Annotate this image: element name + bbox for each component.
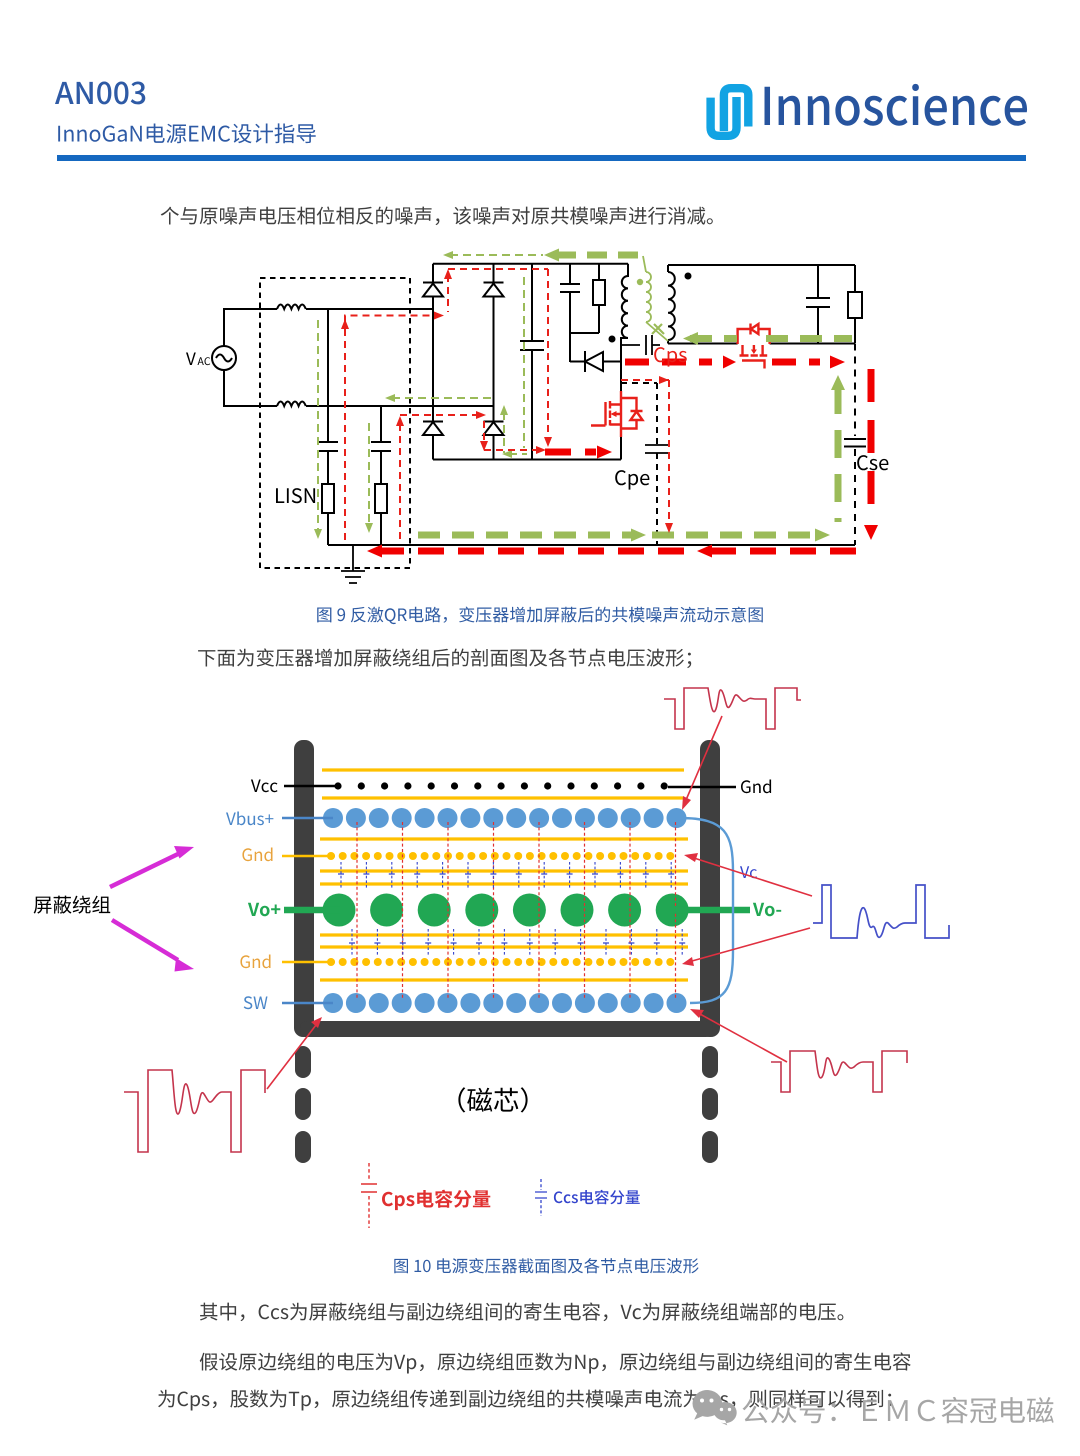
label VAC <box>186 353 196 366</box>
green thick secondary return path <box>690 335 852 342</box>
Innoscience logo icon <box>711 88 749 136</box>
waveform bottom right (SW node, red) <box>771 1051 907 1092</box>
red thick bottom path <box>378 548 868 555</box>
Ccs tick plates <box>338 874 355 943</box>
label Vo+ <box>248 903 280 917</box>
tape line 8 <box>320 978 688 981</box>
green arrowhead down (LISN2) <box>365 523 373 533</box>
paragraph 4 line 2 <box>158 1390 891 1411</box>
label Vcc <box>251 780 278 793</box>
red thick arrowhead mid (Cps path) <box>723 356 736 369</box>
lead Vo+ <box>284 907 340 914</box>
lead Gnd right <box>668 786 736 788</box>
secondary top rail <box>668 264 855 266</box>
core left leg dashes <box>295 1046 311 1078</box>
annotation line waveform to Vbus+ <box>267 716 812 1089</box>
diode D4 <box>484 422 504 436</box>
snubber resistor <box>598 263 600 333</box>
figure 10 caption <box>394 1258 698 1273</box>
green thick vertical right <box>835 386 842 522</box>
green thick arrowhead left (top shield path) <box>544 249 559 262</box>
magenta arrow to upper shield <box>110 846 194 887</box>
snubber diode <box>570 351 621 372</box>
resistor LISN 2 <box>375 484 387 513</box>
green noise path lower diode vertical <box>504 412 527 454</box>
label Vo- <box>753 903 781 917</box>
green noise path bridge horizontal <box>392 397 494 399</box>
red arrowhead down (x548) <box>544 437 552 447</box>
capacitor LISN 2 <box>371 406 391 484</box>
winding row SW (blue) <box>323 993 687 1013</box>
secondary bottom rail <box>668 343 855 345</box>
green arrowhead left (lower diode) <box>502 450 512 458</box>
Ccs dashed capacitance ticks <box>341 862 352 956</box>
paragraph 2 <box>198 648 691 668</box>
output capacitor <box>806 265 830 343</box>
red arrowhead right (x478) <box>476 411 486 419</box>
label Vc <box>740 866 757 878</box>
red arrowhead up (LISN) <box>341 319 349 329</box>
lead SW <box>282 1002 333 1005</box>
primary dot <box>609 336 616 343</box>
label Cpe <box>615 470 649 490</box>
paragraph 4 line 1 <box>200 1353 911 1374</box>
magenta arrow to lower shield <box>112 920 194 972</box>
red arrowhead right (lower rail) <box>536 446 546 454</box>
capacitor LISN 1 <box>318 309 338 484</box>
paragraph 3 <box>200 1303 844 1322</box>
waveform bottom left (SW node, red) <box>124 1070 265 1152</box>
tape line 7 <box>320 945 688 948</box>
transformer primary winding <box>621 264 628 391</box>
red thick path Cps to Cse <box>625 359 820 366</box>
lead Vcc <box>284 785 338 787</box>
inductor LISN bottom <box>277 402 306 407</box>
header subtitle <box>58 123 316 143</box>
red thick arrowhead left (bottom 1) <box>367 545 382 558</box>
resistor LISN 1 <box>322 484 334 513</box>
capacitor Cpe dashed branch <box>621 383 657 545</box>
label Vbus+ <box>226 812 273 826</box>
red thick path primary bottom <box>545 449 596 456</box>
AC source VAC <box>212 346 236 370</box>
red noise path lower diode vertical <box>484 421 538 450</box>
winding row Vcc (black dots) <box>334 782 667 789</box>
lead Gnd upper <box>282 855 335 858</box>
red arrowhead right (Cpe loop) <box>659 376 669 384</box>
tape line 6 <box>320 933 688 936</box>
load resistor <box>854 265 856 343</box>
LISN dashed box <box>260 278 410 568</box>
diode D1 <box>423 283 443 297</box>
transformer shield winding <box>643 256 668 341</box>
green arrowhead down (LISN1) <box>314 529 322 539</box>
red arrowhead down (Cpe bottom) <box>665 523 673 533</box>
red arrowhead up (x400) <box>396 416 404 426</box>
winding row Vbus+ (blue) <box>323 808 687 828</box>
Ccs legend capacitor symbol <box>535 1179 547 1216</box>
tape line 4 <box>320 869 688 872</box>
label Cse <box>857 455 888 470</box>
paragraph 1 <box>161 207 713 226</box>
green arrowhead up (lower diode) <box>500 405 508 415</box>
green thick bottom path <box>418 532 818 539</box>
core right leg dashes <box>702 1046 718 1078</box>
red thick arrowhead left (bottom 2) <box>697 545 712 558</box>
core left bar <box>294 740 314 1037</box>
GaN transistor Q2 (sync rectifier, red) <box>738 324 770 369</box>
label Gnd lower <box>240 955 270 969</box>
tape line 2 <box>322 796 684 799</box>
green noise path top horizontal <box>450 254 543 256</box>
wire Q1 source to rail <box>620 437 622 460</box>
secondary dot <box>685 273 692 280</box>
diode D3 <box>423 422 443 436</box>
green noise path LISN vertical 1 <box>317 320 319 530</box>
winding row Vo+ (green) <box>323 894 689 927</box>
label Gnd upper <box>242 848 272 862</box>
green arrowhead left (top) <box>443 251 453 259</box>
red noise path Cpe loop <box>621 380 669 525</box>
green thick arrowhead right (bottom 2) <box>815 529 830 542</box>
wire VAC to LISN top <box>224 309 433 346</box>
red thick arrowhead down (right vertical) <box>864 525 878 540</box>
transformer secondary winding <box>668 265 675 344</box>
label LISN <box>276 488 315 503</box>
red noise path bridge top <box>448 269 548 312</box>
red noise path tall vertical x548 <box>547 269 549 440</box>
label Ccs capacitance component <box>554 1190 640 1205</box>
diode D2 <box>484 283 504 297</box>
red noise path vertical x400 <box>400 415 479 544</box>
snubber node wire <box>570 333 599 362</box>
lead Vbus+ <box>282 817 333 820</box>
ground symbol <box>341 545 365 583</box>
GaN transistor Q1 (primary switch, red) <box>591 391 643 437</box>
green thick arrowhead left (secondary) <box>683 332 698 345</box>
bulk capacitor <box>520 263 544 459</box>
core bottom bar <box>300 1021 713 1037</box>
shield winding row Gnd upper (yellow dots) <box>327 852 674 860</box>
bottom ground rail <box>328 544 855 546</box>
label Gnd right <box>741 780 771 794</box>
red arrowhead right (x433) <box>434 312 444 320</box>
figure 9 caption <box>317 607 763 625</box>
lead Gnd lower <box>282 961 335 964</box>
label magnetic core <box>458 1087 527 1112</box>
capacitor Cps <box>621 335 660 355</box>
lead Vo- <box>672 907 750 914</box>
red thick arrowhead right (primary bottom) <box>597 446 612 459</box>
header title AN003 <box>55 82 145 105</box>
tape line 5 <box>320 882 688 885</box>
green thick arrowhead up (right vertical) <box>831 375 845 390</box>
Cps legend capacitor symbol <box>361 1163 377 1228</box>
blue connection curve Vbus+ to SW <box>680 818 733 1003</box>
green thick arrowhead right (bottom 1) <box>631 529 646 542</box>
red arrowhead up (bridge top) <box>444 269 452 279</box>
green noise path LISN vertical 2 <box>368 423 370 524</box>
waveform right (Vc, blue) <box>813 885 949 938</box>
snubber capacitor <box>560 263 580 333</box>
green noise path bridge right vertical <box>523 277 525 448</box>
watermark wechat icon <box>692 1390 736 1425</box>
watermark text <box>743 1397 1054 1423</box>
label shield winding <box>34 896 111 914</box>
label Cps <box>654 347 687 367</box>
header rule <box>57 155 1026 161</box>
capacitor Cse dashed branch <box>854 344 856 546</box>
shield winding row Gnd lower (yellow dots) <box>327 958 674 966</box>
bridge rectifier frame <box>433 264 628 460</box>
Innoscience logotype <box>765 84 1028 126</box>
red noise path LISN vertical <box>345 316 434 545</box>
red arrowhead down (lower diode) <box>480 441 488 451</box>
red thick vertical right <box>868 369 875 506</box>
core right bar <box>700 740 720 1037</box>
red thick arrowhead right (to Cse) <box>830 356 845 369</box>
label SW <box>244 996 268 1009</box>
wire VAC to LISN bottom <box>224 370 494 406</box>
green arrowhead left (bridge) <box>385 394 395 402</box>
green thick shield top path <box>556 255 643 262</box>
tape line 1 <box>322 768 684 771</box>
Cps dashed capacitance lines <box>356 822 358 1000</box>
inductor LISN top <box>277 305 306 310</box>
waveform top right (Vbus noise, red) <box>664 688 801 729</box>
tape line 3 <box>320 837 688 840</box>
label Cps capacitance component <box>382 1190 490 1211</box>
